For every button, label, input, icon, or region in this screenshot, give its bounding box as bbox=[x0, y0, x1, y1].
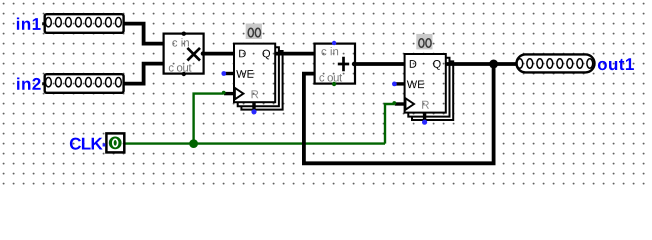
pin c-in (floating bus) bbox=[182, 32, 186, 36]
register REG1 bbox=[221, 24, 282, 115]
pin product out bbox=[201, 51, 205, 55]
label in1 bbox=[17, 18, 41, 30]
pin CLK bbox=[103, 133, 125, 152]
label out1 digit foot serif bbox=[627, 68, 634, 70]
R pin stub bbox=[423, 113, 426, 121]
pin c-out (value 0) bbox=[332, 82, 336, 86]
port labels bbox=[239, 50, 246, 58]
wire in1 to multiplier A bbox=[123, 24, 164, 44]
pin in1 bbox=[42, 14, 123, 33]
register body bbox=[405, 54, 446, 113]
register body bbox=[234, 44, 275, 103]
wire multiplier out to reg1 D bbox=[203, 52, 235, 56]
wire CLK net (green, value 0) bbox=[125, 94, 395, 144]
label out1 bbox=[598, 58, 634, 70]
wire in2 to multiplier B bbox=[123, 64, 164, 84]
R pin stub bbox=[252, 102, 255, 110]
label CLK bbox=[70, 138, 103, 150]
wire CLK up to reg2 clock bbox=[385, 104, 394, 144]
label in1 digit foot serif bbox=[33, 28, 40, 30]
pin out1 bbox=[517, 54, 595, 72]
adder U2 bbox=[315, 41, 357, 86]
stack layer 3 bbox=[412, 61, 453, 120]
wire CLK horizontal run bbox=[125, 142, 386, 144]
WE stub bbox=[224, 72, 235, 75]
wire CLK up to reg1 clock bbox=[194, 94, 224, 144]
value display 00 bbox=[246, 24, 262, 40]
pin sum out bbox=[352, 62, 356, 66]
clock triangle bbox=[235, 88, 244, 99]
stack layer 2 bbox=[238, 47, 279, 106]
value display 00 bbox=[416, 34, 432, 50]
clock stub bbox=[224, 92, 234, 95]
pin in2 bbox=[42, 74, 123, 93]
wire adder out to reg2 D bbox=[354, 62, 405, 66]
label in2 bbox=[17, 78, 40, 90]
wire reg2 Q to out1 bbox=[445, 62, 517, 66]
stack layer 3 bbox=[241, 51, 282, 110]
junction out net bbox=[489, 60, 498, 69]
multiplier U1 bbox=[164, 32, 205, 77]
junction CLK net bbox=[189, 139, 198, 148]
register REG2 bbox=[392, 34, 453, 125]
port labels bbox=[410, 60, 417, 68]
clock triangle bbox=[406, 98, 415, 109]
wire feedback out to adder B bbox=[304, 64, 494, 163]
pin c-out bbox=[182, 72, 186, 76]
canvas background bbox=[0, 0, 652, 185]
clock stub bbox=[395, 102, 405, 105]
wire bus nets (black) bbox=[123, 24, 517, 164]
wire reg1 Q to adder A bbox=[275, 52, 315, 56]
pin c-in (floating 1-bit) bbox=[332, 41, 336, 45]
stack layer 2 bbox=[408, 58, 449, 117]
WE stub bbox=[394, 82, 405, 85]
